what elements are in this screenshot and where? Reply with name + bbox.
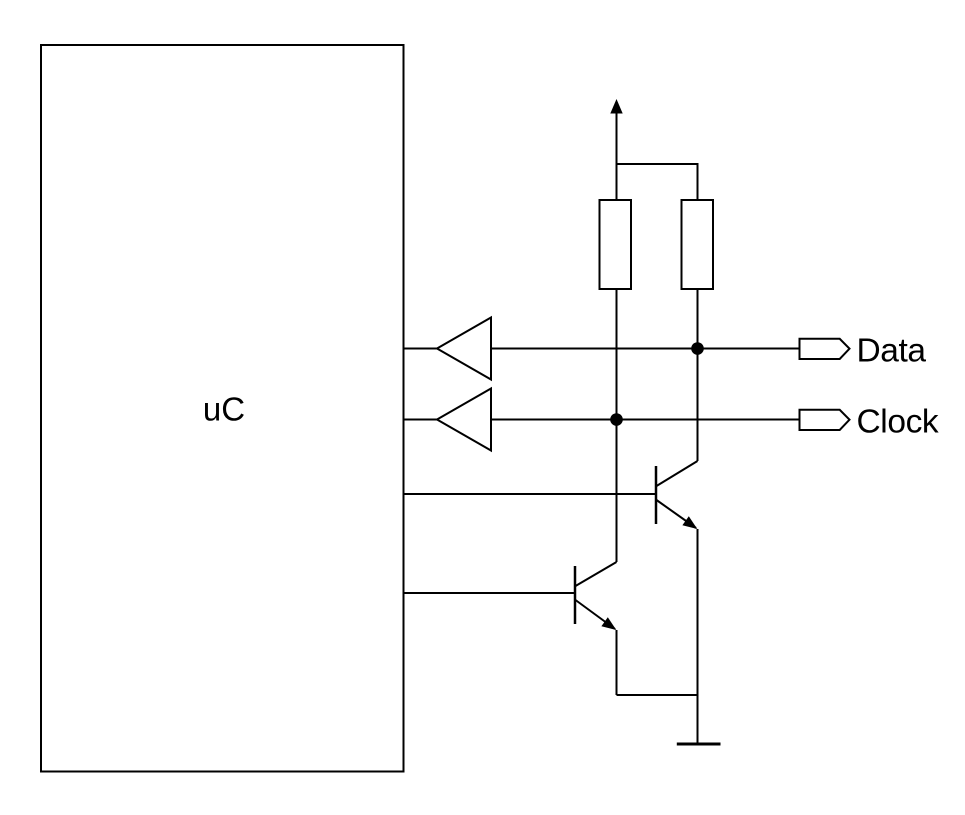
wire uC to Q2 base bbox=[404, 592, 576, 594]
transistor Q2 bbox=[575, 562, 617, 630]
svg-text:Data: Data bbox=[857, 333, 927, 370]
wire clock line bbox=[491, 419, 800, 421]
transistor Q1 bbox=[656, 461, 698, 529]
wire Q2 emitter down bbox=[616, 630, 618, 695]
wire VCC branch to R2 bbox=[617, 164, 698, 200]
buffer U3 (clock input buffer) bbox=[437, 389, 491, 451]
ground bbox=[677, 743, 721, 746]
junction data node bbox=[691, 342, 704, 355]
power supply arrow (VCC) bbox=[610, 99, 622, 200]
microcontroller U1 box (uC) bbox=[41, 45, 404, 772]
wire R1 bottom to Q2 collector (clock net vertical) bbox=[616, 289, 618, 562]
connector Clock bbox=[800, 410, 850, 430]
wire uC to data buffer bbox=[404, 348, 438, 350]
junction clock node bbox=[610, 413, 623, 426]
wire uC to clock buffer bbox=[404, 419, 438, 421]
wire R2 bottom to Q1 collector (data net vertical) bbox=[697, 289, 699, 461]
svg-text:Clock: Clock bbox=[857, 404, 939, 441]
wire uC to Q1 base bbox=[404, 493, 657, 495]
wire bottom joining emitters bbox=[617, 694, 698, 696]
wire data line bbox=[491, 348, 800, 350]
buffer U2 (data input buffer) bbox=[437, 318, 491, 380]
connector Data bbox=[800, 339, 850, 359]
resistor R2 bbox=[682, 200, 714, 289]
resistor R1 bbox=[600, 200, 632, 289]
wire Q1 emitter to ground bbox=[697, 529, 699, 744]
svg-text:uC: uC bbox=[203, 391, 245, 428]
